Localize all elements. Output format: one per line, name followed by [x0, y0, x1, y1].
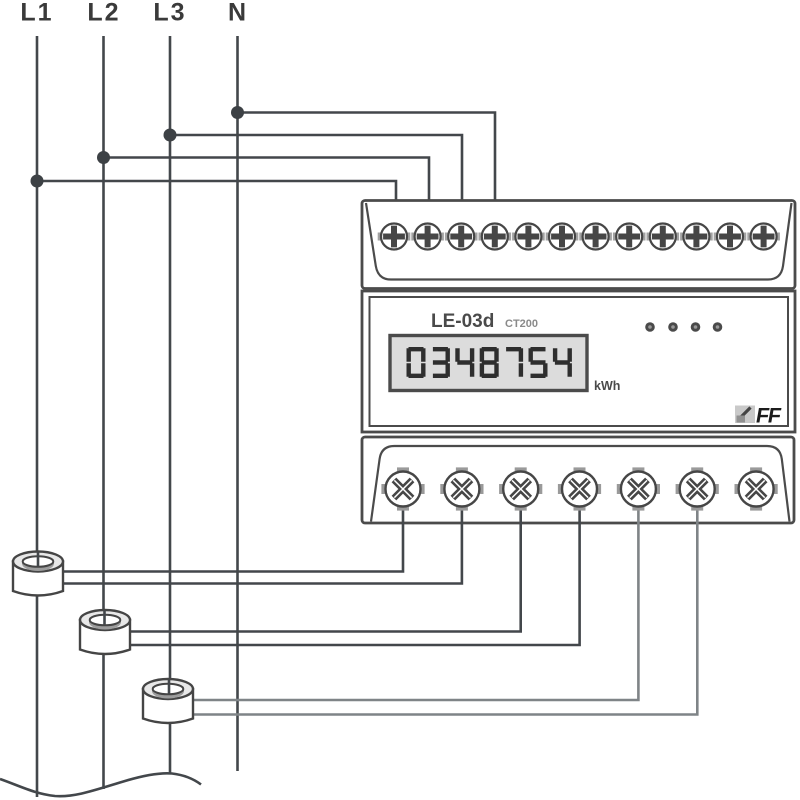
- meter top terminal block: [362, 201, 795, 289]
- cable break line: [0, 773, 201, 796]
- meter middle panel: [362, 291, 795, 432]
- label N: [228, 0, 248, 27]
- label CT200: [505, 318, 538, 330]
- node N junction: [231, 106, 244, 119]
- label L1: [20, 0, 53, 27]
- wire N to terminal 4: [238, 113, 496, 232]
- svg-text:kWh: kWh: [594, 379, 620, 393]
- wire terminal B5 to CT3 (top): [193, 489, 638, 700]
- LED indicator 3: [691, 322, 701, 332]
- LCD digits 0348754: [407, 347, 572, 378]
- terminal 6 (bottom row): [676, 467, 719, 510]
- wire N vertical: [236, 36, 239, 771]
- svg-text:CT200: CT200: [505, 318, 538, 330]
- terminal 3 (top row): [445, 224, 478, 250]
- wire terminal B4 to CT2 (bottom): [130, 489, 580, 645]
- svg-text:N: N: [228, 0, 248, 27]
- label L3: [153, 0, 186, 27]
- terminal 12 (top row): [747, 224, 780, 250]
- node L2 junction: [97, 151, 110, 164]
- label L2: [87, 0, 120, 27]
- terminal 2 (bottom row): [440, 467, 483, 510]
- wire L2 vertical: [102, 36, 105, 789]
- label LE-03d: [431, 311, 494, 332]
- wire L1 vertical: [36, 36, 39, 797]
- terminal 2 (top row): [411, 224, 444, 250]
- LED indicator 2: [668, 322, 678, 332]
- terminal 4 (bottom row): [558, 467, 601, 510]
- terminal 11 (top row): [714, 224, 747, 250]
- label kWh: [594, 379, 620, 393]
- logo F&F: [735, 405, 783, 428]
- current transformer CT1: [13, 552, 63, 596]
- terminal 3 (bottom row): [499, 467, 542, 510]
- terminal 8 (top row): [613, 224, 646, 250]
- terminal 7 (top row): [579, 224, 612, 250]
- svg-text:LE-03d: LE-03d: [431, 311, 494, 332]
- LED indicator 4: [713, 322, 723, 332]
- wire terminal B1 to CT1 (top): [63, 489, 403, 572]
- node L1 junction: [31, 175, 44, 188]
- LED indicator 1: [645, 322, 655, 332]
- meter bottom terminal block: [362, 437, 794, 523]
- terminal 5 (bottom row): [617, 467, 660, 510]
- terminal 5 (top row): [512, 224, 545, 250]
- node L3 junction: [164, 129, 177, 142]
- wire L1 to terminal 1: [37, 181, 396, 231]
- LCD display: [390, 336, 587, 391]
- terminal 10 (top row): [680, 224, 713, 250]
- current transformer CT3: [143, 679, 193, 723]
- terminal 7 (bottom row): [735, 467, 778, 510]
- terminal 9 (top row): [647, 224, 680, 250]
- terminal 1 (top row): [378, 224, 411, 250]
- wire L3 vertical: [169, 36, 172, 773]
- wire terminal B3 to CT2 (top): [130, 489, 521, 632]
- current transformer CT2: [80, 610, 130, 654]
- svg-text:L3: L3: [153, 0, 186, 27]
- terminal 6 (top row): [546, 224, 579, 250]
- svg-text:L1: L1: [20, 0, 53, 27]
- svg-text:L2: L2: [87, 0, 120, 27]
- terminal 4 (top row): [479, 224, 512, 250]
- wire terminal B2 to CT1 (bottom): [63, 489, 462, 584]
- wire terminal B6 to CT3 (bottom): [193, 489, 697, 715]
- terminal 1 (bottom row): [381, 467, 424, 510]
- wire L3 to terminal 3: [170, 135, 462, 231]
- wire L2 to terminal 2: [104, 158, 430, 232]
